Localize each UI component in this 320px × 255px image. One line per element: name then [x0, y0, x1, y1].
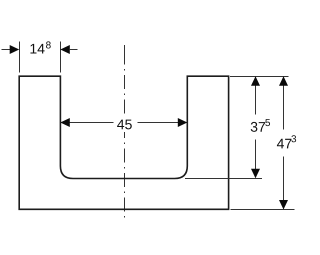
- dimension 47.3: down arrowhead: [279, 200, 288, 210]
- dimension label 37^5: [251, 122, 258, 132]
- U-channel profile outline: [19, 76, 228, 209]
- dimension label 45 (white halo over centerline): [116, 116, 134, 132]
- dimension 45: right arrowhead (points right): [178, 118, 188, 127]
- dimension 47.3: vertical line upper segment: [283, 77, 285, 130]
- dimension 37.5: up arrowhead: [251, 76, 260, 86]
- dimension 45: line right segment: [138, 122, 188, 124]
- dimension 45: line left segment: [60, 122, 113, 124]
- dimension 14.8: left arrowhead (points right): [10, 45, 20, 54]
- dimension 47.3: vertical line lower segment: [283, 157, 285, 209]
- dimension 14.8: right arrowhead (points left): [60, 45, 70, 54]
- centerline (vertical dash-dot axis): [124, 45, 126, 218]
- dimension 37.5: vertical line upper segment: [255, 77, 257, 115]
- dimension 14.8: left extension line: [19, 42, 21, 73]
- right inner-bottom extension line: [185, 178, 262, 180]
- dimension 14.8: right arrow tail: [70, 49, 78, 51]
- dimension 47.3: up arrowhead: [279, 76, 288, 86]
- dimension label 14^8: [30, 44, 36, 54]
- dimension 37.5: down arrowhead: [251, 169, 260, 179]
- dimension 14.8: left arrow tail: [2, 49, 11, 51]
- dimension 45: left arrowhead (points left): [60, 118, 70, 127]
- centerline first dash extender: [124, 46, 126, 52]
- dimension 37.5: vertical line lower segment: [255, 140, 257, 178]
- right top extension line: [230, 76, 289, 78]
- right outer-bottom extension line: [231, 209, 295, 211]
- dimension label 47^3: [277, 139, 284, 149]
- dimension 14.8: right extension line: [60, 42, 62, 73]
